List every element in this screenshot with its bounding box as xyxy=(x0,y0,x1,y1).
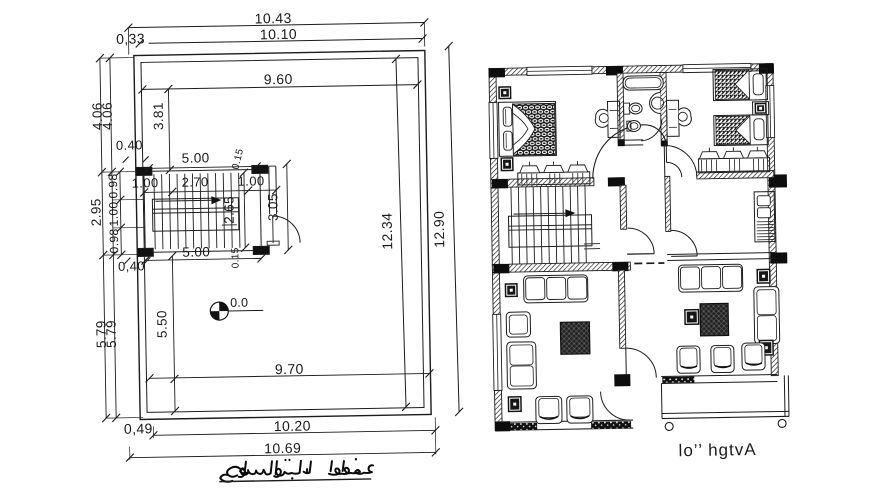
wall bathroom right / bedroom2 left xyxy=(660,72,667,145)
window left bedroom1 xyxy=(489,102,498,158)
stair well xyxy=(152,198,239,231)
dimension 10.20 xyxy=(153,430,435,435)
wall stair bottom xyxy=(492,262,630,272)
column living divider bottom xyxy=(614,374,630,386)
armchair right 2 xyxy=(711,345,734,372)
level marker 0.0 xyxy=(210,302,228,320)
svg-text:0.0: 0.0 xyxy=(230,296,248,310)
bathroom door arc xyxy=(641,120,662,141)
svg-text:0,33: 0,33 xyxy=(116,30,145,47)
stair column bottom-right xyxy=(253,246,269,254)
svg-text:2.95: 2.95 xyxy=(88,198,103,226)
chair bedroom1 xyxy=(595,109,608,127)
column top-mid xyxy=(606,66,623,75)
stair door arc xyxy=(628,228,654,254)
living divider door leaf xyxy=(625,348,628,378)
carpet right-living xyxy=(700,303,729,335)
stair treads right plan xyxy=(511,186,586,264)
side table right-living xyxy=(684,309,699,325)
stair well right plan xyxy=(508,215,592,247)
svg-text:10.20: 10.20 xyxy=(274,418,311,435)
dimension 5.50 (vertical) xyxy=(172,256,175,411)
twin bed 1 pillow xyxy=(753,74,763,95)
armchair right 3 xyxy=(742,343,765,370)
armchair bottom 2 xyxy=(567,396,593,423)
svg-text:5.79: 5.79 xyxy=(103,320,118,348)
twin bed 1 xyxy=(713,69,768,101)
door arc living right xyxy=(626,348,657,379)
corner column top-left xyxy=(489,68,505,77)
dimension 5.00 bottom of stair xyxy=(145,258,261,260)
svg-text:5.50: 5.50 xyxy=(154,310,169,338)
bed blanket pattern xyxy=(513,103,556,155)
stair direction arrow xyxy=(155,199,211,202)
svg-text:1.00: 1.00 xyxy=(106,201,120,226)
svg-text:9.70: 9.70 xyxy=(275,361,304,378)
armchair bottom 1 xyxy=(536,396,562,423)
corridor dashed line xyxy=(634,262,664,265)
bathtub xyxy=(623,75,663,90)
stair right wall / door jamb xyxy=(268,166,271,214)
dimension 5.00 top of stair xyxy=(144,166,260,168)
bed pillow 1 xyxy=(503,107,512,126)
balcony floor edge xyxy=(660,384,663,419)
dresser mirrors bedroom2 xyxy=(699,152,719,159)
dimension 3.81 (vertical to stair) xyxy=(168,89,169,170)
sink bathroom xyxy=(649,93,660,114)
ornament right-living bottom xyxy=(759,340,774,356)
stair break marks xyxy=(584,243,600,245)
column right kitchen bottom xyxy=(770,252,787,263)
kitchen sink xyxy=(757,196,770,206)
balcony right edge xyxy=(783,375,786,416)
double bed xyxy=(498,101,556,156)
window right bedroom2 xyxy=(766,86,775,138)
svg-text:10.10: 10.10 xyxy=(260,26,297,43)
corner column bottom-left xyxy=(495,421,510,431)
stair break marks left plan xyxy=(222,224,237,226)
dresser bedroom2 xyxy=(699,158,770,173)
twin bed 2 xyxy=(714,115,769,146)
sill speckle right xyxy=(591,421,631,429)
svg-text:1.00: 1.00 xyxy=(131,175,158,190)
stair enclosure xyxy=(144,169,261,252)
bedroom2 door leaf xyxy=(663,145,666,177)
dimension row 1.00/2.70/1.00 xyxy=(144,190,276,192)
sofa right-living side xyxy=(754,286,780,343)
column mid-right wall xyxy=(769,174,787,187)
kitchen counter xyxy=(754,192,775,242)
toilet xyxy=(624,103,630,114)
left dimension chain line C (0.98/1.00/0.98) xyxy=(120,172,121,255)
hall arch opening xyxy=(592,125,645,179)
dimension 12.90 (outer height) xyxy=(449,46,459,412)
dimension 10.69 xyxy=(130,452,436,457)
ornament square bedroom1 bottom xyxy=(500,157,513,171)
desk bedroom1 xyxy=(607,101,620,137)
exterior wall left xyxy=(489,68,502,430)
bidet xyxy=(627,120,640,131)
column stair top-left xyxy=(492,179,508,188)
wall kitchen left xyxy=(665,176,671,231)
balcony post right xyxy=(778,419,786,427)
bed fold triangles xyxy=(513,104,536,154)
bathroom wall end stub left xyxy=(618,139,625,146)
dimension 9.70 xyxy=(149,373,429,378)
stair mid landing lines xyxy=(153,208,239,210)
wall living rooms divider xyxy=(618,270,625,348)
bedroom2 door arc xyxy=(664,145,697,178)
kitchen stove hatch xyxy=(757,222,774,240)
sofa right-living top xyxy=(678,264,742,292)
wall bathroom left xyxy=(617,73,624,143)
stair column bottom-left xyxy=(137,248,153,256)
left dimension chain line B xyxy=(110,58,116,418)
chair bedroom2 xyxy=(679,108,692,126)
svg-text:0.98: 0.98 xyxy=(107,228,121,253)
extension line right top xyxy=(423,22,425,46)
sofa left-living side xyxy=(507,342,537,389)
stair door stub bottom xyxy=(267,241,279,245)
left dimension chain line A xyxy=(100,58,106,418)
bathroom wall end stub right xyxy=(661,140,668,146)
ornament right-living top xyxy=(756,269,770,284)
armchair right 1 xyxy=(677,346,700,373)
exterior wall right xyxy=(766,64,778,376)
extension line left top xyxy=(127,28,129,55)
column stair bottom-right xyxy=(612,262,628,271)
svg-text:9.60: 9.60 xyxy=(264,71,293,88)
desk bedroom2 xyxy=(666,100,679,136)
sofa left-living top xyxy=(524,275,588,303)
svg-text:2.65: 2.65 xyxy=(221,196,236,224)
wall bathroom bottom xyxy=(618,139,643,141)
corner column top-right xyxy=(759,64,774,74)
svg-text:3.81: 3.81 xyxy=(151,102,166,130)
balcony door arc xyxy=(601,391,631,421)
svg-text:0.98: 0.98 xyxy=(106,173,120,198)
roof outer wall xyxy=(134,50,431,419)
svg-text:10.43: 10.43 xyxy=(255,10,292,27)
svg-text:4.06: 4.06 xyxy=(100,102,115,130)
dresser mirrors bedroom1 xyxy=(520,166,540,173)
stair column top-right xyxy=(252,165,268,173)
wall kitchen bottom xyxy=(667,253,775,255)
svg-text:0,49: 0,49 xyxy=(124,420,153,437)
kitchen door arc xyxy=(671,230,697,256)
svg-text:10.69: 10.69 xyxy=(264,440,301,457)
svg-text:0.15: 0.15 xyxy=(230,247,241,268)
arabic title roof floor plan xyxy=(220,457,373,482)
dimension 3.05 xyxy=(287,164,289,250)
column stair top-right xyxy=(608,177,625,186)
stair landing lines xyxy=(509,225,592,226)
balcony sill xyxy=(661,375,777,377)
sill speckle left xyxy=(500,423,537,431)
ornament left-living top xyxy=(505,283,518,297)
left extension lines xyxy=(100,57,134,60)
wall bedroom2 bottom / kitchen top xyxy=(697,171,774,179)
stair treads xyxy=(154,173,240,249)
svg-text:2.70: 2.70 xyxy=(181,174,208,189)
column stair bottom-left xyxy=(493,264,509,273)
ornament left-living bottom xyxy=(508,396,522,412)
dimension 12.34 (inner height) xyxy=(396,59,406,407)
dimension 2.65 (stair height) xyxy=(244,173,245,248)
balcony post left xyxy=(665,422,673,430)
svg-text:0,40: 0,40 xyxy=(118,258,145,273)
nightstand bedroom2 xyxy=(753,102,769,115)
exterior wall top xyxy=(489,64,773,76)
dresser bedroom1 xyxy=(518,172,590,185)
armchair left-living xyxy=(506,312,530,337)
svg-text:3.05: 3.05 xyxy=(265,193,280,221)
wall bedroom1 / stair xyxy=(491,178,594,188)
svg-text:lo’’ hgtvA: lo’’ hgtvA xyxy=(678,440,756,460)
roof inner wall xyxy=(141,58,424,413)
dimension 10.10 (top inner) xyxy=(149,39,423,44)
svg-text:12.34: 12.34 xyxy=(379,213,396,250)
carpet left-living xyxy=(560,322,590,355)
bed pillow 2 xyxy=(503,131,512,150)
svg-text:0.40: 0.40 xyxy=(116,137,143,152)
window top bedroom1 xyxy=(527,66,592,75)
stair door arc xyxy=(273,216,300,243)
window left living xyxy=(493,314,502,390)
title underline xyxy=(219,479,371,482)
svg-text:12.90: 12.90 xyxy=(431,211,448,248)
svg-text:5.00: 5.00 xyxy=(182,244,210,259)
svg-text:5.00: 5.00 xyxy=(182,150,210,165)
ornament square bedroom1 top xyxy=(498,86,511,99)
wall bottom left-living xyxy=(495,420,633,422)
stair column top-left xyxy=(136,167,152,175)
bottom extension lines xyxy=(434,417,437,454)
twin bed 2 pillow xyxy=(754,119,764,140)
dimension 10.43 (top outer) xyxy=(128,22,424,27)
wall stair right xyxy=(620,185,627,229)
window right living xyxy=(769,290,778,342)
dimension 9.60 (inside top) xyxy=(142,85,417,90)
stair arrow right plan xyxy=(513,212,565,215)
window top bedroom2 xyxy=(683,63,751,72)
